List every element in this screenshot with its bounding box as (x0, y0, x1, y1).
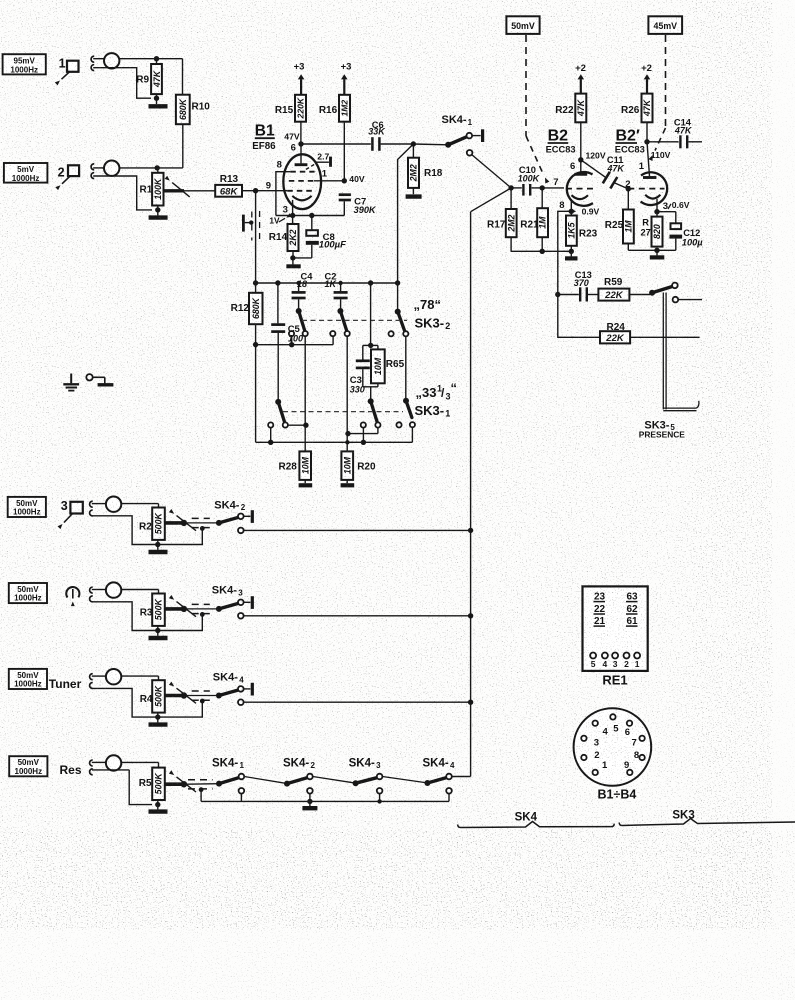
tuner connector circle (92, 669, 122, 684)
SK4-1 lower contact (467, 150, 473, 156)
wire SK4-2 to SK4-3 bottom (313, 777, 354, 783)
wire R1 wiper to R13 (184, 190, 215, 192)
wire input2 low side to ground (93, 176, 160, 213)
switch SK4-1 bottom (216, 774, 244, 787)
wire R13 to EF86 grid node (242, 190, 256, 192)
resistor R27 820 (641, 212, 663, 247)
wire SK4-1 to SK4-2 bottom (244, 777, 285, 784)
input res level label box 50mV 1000Hz (9, 756, 47, 776)
resistor R26 47K (621, 94, 653, 142)
input jack 2 contacts (91, 164, 94, 179)
resistor R12 680K (231, 283, 263, 345)
input tuner level label box 50mV 1000Hz (9, 669, 47, 689)
node B2 grid (532, 177, 559, 191)
resistor R20 10M (341, 451, 376, 485)
capacitor C4 18 (292, 272, 314, 311)
input 3 level label box 50mV 1000Hz (8, 497, 46, 517)
node B2p cathode (654, 209, 659, 214)
SK4-2 lower contact (238, 528, 244, 534)
ground rail under R17 R21 R23 (511, 251, 578, 258)
ground under R4 (149, 717, 168, 725)
node grid of B1 (253, 188, 258, 193)
potentiometer R4 500K (140, 680, 165, 712)
wire SK4-1 contact to C10 node (472, 155, 511, 188)
ground under R5 (149, 805, 168, 812)
wire input 3 to R2 (121, 504, 158, 508)
input jack 3 contacts (90, 501, 93, 516)
input jack tuner contacts (90, 674, 93, 689)
SK4-4 lower contact (238, 699, 244, 705)
capacitor C3 330 (350, 345, 370, 394)
wire input2 to R1 (119, 167, 182, 169)
B1 control grid g1 dashes pin 9 (256, 181, 314, 192)
capacitor C5 100 (271, 283, 303, 401)
node 120V plate of B2 (570, 150, 606, 172)
eq bottom rail (256, 427, 413, 445)
switch SK3-2 pole a (289, 308, 308, 336)
capacitor C14 47K output (674, 117, 702, 148)
SK3-1 gang dashed link (283, 411, 403, 413)
potentiometer R3 500K (140, 594, 165, 626)
input res name (60, 763, 82, 777)
node R12 bottom (253, 342, 258, 347)
ground rail under R25 R27 C12 (628, 248, 676, 258)
R3 wiper and link (165, 595, 219, 617)
tube B2p envelope (641, 172, 668, 205)
wire R12 node down left side (255, 345, 257, 443)
RE1 terminal 23 (594, 591, 606, 602)
socket pin holes (581, 714, 645, 775)
switch SK4-2 (214, 499, 252, 526)
resistor R9 47K (136, 59, 162, 98)
cathode voltage 1V (269, 213, 291, 225)
resistor R21 1M (520, 188, 548, 254)
node 47V plate of B1 (284, 132, 303, 154)
wire SK3-1 pole b to R20 line (345, 428, 378, 437)
section brace SK4 (458, 812, 615, 828)
wire input 4 to R3 (121, 590, 158, 594)
resistor R23 1K5 (566, 211, 598, 254)
R2 wiper and link (165, 509, 219, 531)
switch SK3-1 pole c (396, 336, 415, 427)
B1 plate lead (295, 144, 308, 165)
R5 wiper and link (165, 770, 219, 792)
supply +2 for R22 (575, 63, 586, 94)
resistor R17 2M2 (487, 188, 517, 251)
node C10 input junction (508, 185, 513, 190)
wire SK4-3 to SK4-4 bottom (382, 777, 425, 783)
ground under R14 (286, 258, 300, 266)
resistor R65 10M (371, 345, 405, 386)
B1 screen grid g2 dashes pin 1 (289, 168, 345, 181)
C3 R65 parallel bottom bar (363, 387, 378, 401)
input 4 pickup icon (66, 587, 79, 606)
RE1 terminal 21 (594, 616, 606, 627)
RE1 contact pins 5 4 3 2 1 (590, 653, 640, 669)
eq top rail (253, 280, 400, 285)
tube B2 envelope (567, 172, 593, 206)
capacitor C6 33K (368, 120, 386, 151)
B1 cathode rail (276, 213, 344, 218)
B2 plate lead and bar (574, 160, 587, 175)
B2 grid dashes (566, 188, 597, 190)
wire SK4-4 to collect line corner (452, 776, 471, 778)
SK3-2 gang dashed link (302, 319, 407, 321)
wire grid node down to eq rail (255, 191, 257, 283)
supply +3 for R15 (294, 62, 305, 95)
input jack res contacts (90, 760, 93, 775)
wire res to R5 (121, 762, 158, 767)
screened cable symbol at grid wire (243, 211, 259, 241)
collect line to B2 grid node (471, 188, 512, 777)
chassis terminal symbol (86, 374, 113, 385)
tube B2 label (546, 127, 576, 154)
B2p plate lead and bar (643, 142, 656, 178)
resistor R25 1M (605, 189, 634, 250)
node C6 output (411, 141, 416, 146)
resistor R10 680K (176, 59, 210, 168)
switch SK4-1 (413, 114, 482, 148)
potentiometer R2 500K (139, 508, 165, 540)
res connector circle (92, 755, 122, 770)
wire eq rail to C3 R65 (368, 283, 373, 348)
wire input1 to R9/R10 (119, 58, 182, 60)
capacitor C11 47K coupling (581, 155, 629, 189)
switch SK4-3 (212, 585, 253, 612)
resistor R18 2M2 (408, 144, 443, 194)
C3 R65 parallel top bar (363, 344, 378, 346)
capacitor C13 370 (558, 270, 592, 302)
resistor R16 1M2 (319, 95, 350, 181)
scan noise (0, 0, 1, 1)
RE1 terminal 62 (626, 604, 638, 615)
R1 wiper (164, 176, 190, 197)
RE1 terminal 22 (594, 604, 606, 615)
resistor R22 47K (555, 94, 586, 160)
earth ground symbol (63, 374, 79, 391)
B1 grid3 dashes (290, 171, 314, 173)
resistor R13 68K (215, 174, 242, 198)
wire SK4-3 to collect line (244, 613, 474, 618)
wire SK4-1 node jog down to eq rail (398, 144, 414, 283)
input 4 level label box 50mV 1000Hz (9, 583, 47, 603)
node C13 R24 junction (555, 292, 560, 297)
node 40V screen grid (342, 174, 365, 184)
supply +2 for R26 (641, 63, 652, 94)
wire C13 node down to R24 (558, 295, 600, 338)
input 3 connector circle (92, 497, 122, 512)
input 1 pickup icon (55, 57, 79, 86)
B1 grid shield bracket pin 8 (276, 172, 290, 216)
ground under R9 (149, 98, 168, 106)
wire R4 frame to ground (92, 688, 205, 719)
input tuner name (49, 677, 82, 691)
switch SK3-1 pole b (361, 398, 381, 427)
switch SK4-4 bottom label (423, 758, 456, 771)
switch SK4-4 bottom (424, 774, 451, 786)
B1 pin labels 8 and 3 (277, 159, 288, 215)
capacitor C7 390K (339, 195, 377, 216)
wire grid node to tube B2 (542, 187, 564, 189)
input jack 1 contacts (91, 56, 94, 70)
SK3-5 label PRESENCE (639, 419, 685, 439)
input 2 pickup icon (55, 165, 79, 190)
node B2 cathode (569, 209, 574, 214)
supply +3 for R16 (341, 62, 352, 95)
resistor R14 2K2 (269, 216, 299, 261)
capacitor C10 100K (511, 165, 541, 195)
wire SK3-1 pole b rest to rail (361, 428, 366, 445)
test level box 50mV (506, 16, 539, 34)
wire R5 frame to ground (92, 770, 204, 807)
node junction R9 top (154, 56, 159, 61)
tube B2p label (615, 127, 645, 154)
RE1 terminal 63 (626, 591, 638, 602)
dashed test line to B2p grid (648, 35, 665, 161)
SK3-5 actuator link (663, 293, 699, 411)
node junction R1 top (155, 165, 160, 170)
bottom ground rail (201, 794, 449, 805)
switch bank label SK3-2 (415, 315, 451, 331)
connector RE1 outline (583, 586, 648, 671)
switch SK3-2 pole b (330, 308, 350, 336)
node 110V plate of B2p (639, 139, 671, 172)
capacitor C12 100u electrolytic (657, 212, 703, 251)
dashed test line to B1 grid node (526, 35, 549, 184)
R4 wiper and link (165, 682, 219, 704)
resistor R59 22K (588, 277, 650, 301)
ground under R18 (406, 194, 422, 198)
capacitor C2 1K (325, 272, 348, 311)
test level box 45mV (648, 16, 682, 34)
switch SK3-2 pole c (389, 283, 409, 336)
switch SK3-5 presence (649, 283, 678, 296)
wire input1 low side to ground (93, 68, 159, 101)
wire C6 to SK4-1 node (381, 143, 414, 145)
socket label B1-B4 (598, 788, 637, 802)
RE1 terminal 61 (626, 616, 638, 627)
input jack 4 contacts (90, 587, 93, 602)
B2 cathode pin 8 (559, 195, 588, 211)
tube B1 EF86 envelope (283, 154, 321, 209)
SK3-5 lower contact and output wire (673, 297, 702, 303)
switch SK4-4 (213, 672, 253, 699)
bottom rest contacts (239, 788, 452, 794)
speed label 33 1/3 (416, 381, 458, 402)
switch SK4-3 bottom label (349, 758, 382, 771)
wire SK4-2 to collect line (244, 528, 474, 533)
wire tuner to R4 (121, 676, 158, 680)
resistor R28 10M (279, 451, 313, 485)
input 1 connector circle (93, 53, 119, 68)
cathode voltage 0.6V (668, 200, 690, 210)
potentiometer R5 500K (139, 768, 165, 800)
B1 cathode (292, 196, 311, 216)
input 1 level label box 95mV 1000Hz (3, 54, 46, 74)
wire SK4-4 to collect line (244, 700, 474, 705)
section brace SK3 (619, 810, 795, 826)
ground under R2 (149, 545, 168, 553)
resistor R24 22K (600, 322, 700, 344)
switch SK3-1 pole a (268, 399, 288, 428)
speed label 78 (414, 297, 441, 312)
cathode voltage 0.9V (572, 207, 600, 217)
capacitor C8 100uF electrolytic (293, 216, 346, 258)
switch SK4-1 bottom label (212, 758, 245, 771)
wire SK3-2 pole a to R28 (304, 336, 306, 451)
switch SK4-2 bottom label (283, 758, 316, 771)
wire SK3-1 pole a to R28 line (288, 423, 309, 428)
ground under R3 (149, 631, 168, 639)
input 4 connector circle (92, 582, 122, 597)
input 3 tape icon (58, 499, 83, 529)
input 2 connector circle (93, 161, 119, 176)
socket pin numbers (594, 724, 639, 771)
switch bank label SK3-1 (415, 403, 451, 419)
B2p cathode pin 3 (645, 195, 668, 212)
potentiometer R1 100K (140, 168, 164, 206)
input 2 level label box 5mV 1000Hz (4, 163, 48, 183)
switch SK4-2 bottom (284, 774, 313, 787)
wire 110V node to C14 (647, 141, 679, 143)
wire R2 frame to ground (92, 516, 205, 547)
wire B2 cathode to C13 node (558, 211, 572, 294)
SK4-3 lower contact (238, 613, 244, 619)
switch SK4-3 bottom (353, 774, 383, 787)
node grid of B2p pin 2 (625, 179, 631, 192)
B2p grid dashes (628, 188, 664, 190)
resistor R15 220K (275, 95, 306, 144)
tube socket B1-B4 outline (574, 708, 652, 786)
connector RE1 label (602, 673, 627, 688)
wire SK3-2 pole b to R20 (345, 336, 349, 451)
wire plate node to C6 (301, 143, 371, 145)
ground under R1 (149, 210, 168, 218)
tube B1 label (252, 123, 276, 152)
wire eq node to SK3-2 rest contacts (256, 336, 334, 347)
ground at bottom rail (302, 801, 317, 808)
wire R3 frame to ground (92, 602, 205, 633)
grid top-cap capacitor 2.7 (306, 151, 331, 169)
